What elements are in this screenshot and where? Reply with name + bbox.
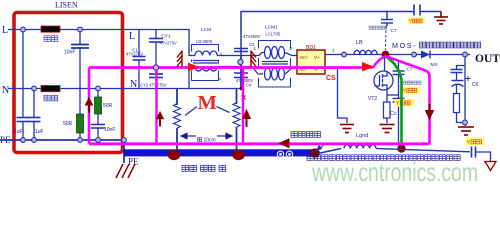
node V+ at BD1: [342, 52, 347, 57]
svg-text:CY1: CY1: [162, 34, 171, 39]
capacitor C3: [234, 49, 248, 52]
wire magenta top run: [89, 66, 373, 69]
capacitor C1 X-cap: [133, 30, 146, 89]
ground (top right): [434, 12, 448, 25]
junction C4/N rail: [240, 87, 243, 90]
current symbols on plane: [277, 151, 292, 157]
svg-text:www.cntronics.com: www.cntronics.com: [311, 157, 478, 185]
ground chassis triangle: [485, 162, 496, 171]
wire LCM1 top to BD1: [285, 53, 297, 56]
svg-text:LCM1: LCM1: [265, 25, 278, 31]
wire to Y cap right: [376, 149, 470, 152]
ground Lgnd (primary): [340, 125, 354, 133]
svg-text:2: 2: [220, 52, 223, 57]
label C7 distributed: [369, 26, 387, 29]
wire magenta right vertical: [428, 74, 431, 144]
svg-text:OUT: OUT: [475, 53, 500, 65]
wire motor leg right: [236, 89, 238, 105]
ground plane bus (参考接地板): [124, 149, 318, 156]
svg-text:BD1: BD1: [306, 45, 316, 51]
capacitor C7 (heatsink distributed): [381, 12, 393, 27]
label Y电容 (mid lower): [395, 99, 415, 107]
node N2: [96, 86, 101, 91]
wire chassis link: [318, 149, 341, 154]
wire PE rail: [0, 139, 124, 141]
svg-text:Y: Y: [403, 89, 407, 95]
arrow current up (C4 drop): [243, 110, 251, 127]
node OUT bottom: [463, 120, 468, 125]
wire LCM1 bottom to BD1: [285, 68, 297, 74]
arrow current tick (at CY1): [177, 51, 182, 67]
label 参考接地板: [182, 165, 226, 171]
wire magenta CY midpoint drop: [155, 68, 157, 144]
transistor VT2 (MOSFET): [374, 55, 393, 90]
svg-text:47V275V: 47V275V: [160, 41, 177, 46]
wire V+ rail: [325, 54, 470, 56]
wire V- drop to ground: [325, 68, 347, 123]
wire LCM to C3 column (L side): [217, 55, 241, 57]
junction mark magenta drop: [242, 96, 246, 100]
ground (source): [380, 125, 395, 133]
caption text: [307, 155, 460, 161]
node plane left (motor leg): [168, 150, 181, 160]
resistor Rs (source): [384, 102, 391, 118]
svg-text:1: 1: [254, 46, 257, 51]
choke LCM1 top winding (loops): [265, 47, 285, 59]
svg-text:LISEN: LISEN: [55, 1, 78, 10]
wire C3 col to LCM1 top: [241, 53, 264, 56]
svg-text:LB: LB: [356, 40, 363, 46]
node PE5: [122, 138, 127, 143]
node CY midpoint: [153, 65, 158, 70]
capacitor 10nF (N measuring leg): [91, 125, 105, 141]
wire magenta C4 midpoint drop: [242, 68, 244, 144]
node PE1: [21, 138, 26, 143]
svg-text:LD-2805: LD-2805: [196, 39, 213, 44]
label Y电容 (bottom right): [466, 138, 485, 146]
node C3/C4 midpoint: [238, 59, 243, 64]
arrow chassis pointer: [317, 143, 328, 151]
wire top Y line: [241, 12, 414, 56]
svg-text:AC+: AC+: [300, 55, 309, 60]
svg-text:PE: PE: [128, 157, 139, 167]
inductor chassis link: [344, 145, 376, 149]
dimension arrow 10cm: [181, 133, 232, 139]
svg-text:LCM: LCM: [201, 27, 211, 33]
arrow current (bright red right, at CS): [362, 62, 374, 72]
choke LCM body outline: [192, 45, 219, 81]
node green to plane: [397, 144, 405, 152]
capacitor Y (bottom right): [472, 147, 491, 162]
capacitor CY1: [149, 30, 163, 68]
svg-text:N: N: [130, 79, 137, 90]
choke LCM1 body outline: [259, 41, 291, 88]
svg-text:4: 4: [219, 77, 222, 82]
resistor motor leg left (zigzag): [174, 104, 181, 129]
choke LCM core: [193, 60, 219, 62]
wire magenta left vertical: [88, 68, 91, 144]
diode VD1: [421, 51, 430, 59]
resistor 50R (N leg): [95, 89, 102, 125]
arrow current tick (at C3): [251, 51, 256, 67]
node before diode: [412, 52, 417, 57]
capacitor 1uF (N leg): [28, 89, 41, 141]
node drain junction (heatsink): [382, 51, 390, 59]
node L1: [21, 27, 26, 32]
label Y电容 (mid upper): [402, 87, 421, 95]
svg-text:L: L: [2, 25, 8, 36]
ground (output): [458, 127, 474, 135]
ground PE (hatched): [116, 164, 135, 178]
node PE3: [78, 138, 83, 143]
svg-text:Y: Y: [467, 140, 471, 146]
choke LCM bottom winding: [195, 67, 217, 72]
inductor LB: [354, 50, 377, 54]
node OUT: [463, 52, 468, 57]
wire LCM to LCM1 (N side): [217, 67, 263, 75]
svg-text:VT2: VT2: [368, 96, 377, 102]
svg-text:47V275V: 47V275V: [126, 52, 143, 57]
wire C3/C4 column: [240, 56, 242, 89]
wire N step to choke: [189, 67, 195, 89]
wire magenta over MOSFET: [373, 56, 430, 77]
label 分布电容 (mid): [404, 81, 422, 84]
wire magenta bottom run: [89, 142, 430, 145]
capacitor C4: [234, 73, 248, 78]
capacitor output small: [451, 70, 463, 81]
svg-text:C4: C4: [246, 83, 252, 88]
svg-text:C6: C6: [472, 82, 479, 88]
capacitor 10nF (L measuring leg): [71, 30, 89, 115]
node N1: [32, 86, 37, 91]
resistor 高阻 N: [41, 86, 60, 92]
svg-text:V+: V+: [314, 55, 320, 60]
svg-text:Cc: Cc: [390, 111, 397, 117]
svg-text:MX: MX: [431, 62, 439, 68]
svg-text:10nF: 10nF: [104, 127, 115, 133]
wire motor connection right: [217, 107, 230, 113]
capacitor 1uF (L leg): [17, 30, 30, 141]
wire L rail: [8, 30, 195, 56]
resistor load: [454, 94, 460, 113]
svg-text:50R: 50R: [63, 121, 73, 127]
node L2: [78, 27, 83, 32]
resistor 高阻 L: [41, 26, 60, 32]
bridge rectifier BD1: [297, 50, 325, 74]
capacitor Cc: [387, 62, 405, 143]
wire green heatsink-to-plane: [386, 57, 402, 147]
capacitor C6 electrolytic: [452, 81, 464, 94]
svg-text:1uF: 1uF: [35, 129, 44, 135]
resistor motor leg right (zigzag): [233, 103, 240, 128]
LISN box: [14, 13, 123, 153]
wire PE drop to ground: [123, 140, 125, 163]
wire motor leg left: [176, 89, 178, 106]
label 机壳接地: [291, 132, 321, 138]
label Y电容 (top): [408, 18, 425, 25]
wire dashed C7 to drain: [385, 26, 388, 50]
svg-text:C7: C7: [391, 28, 397, 34]
svg-text:M: M: [198, 92, 217, 114]
arrow current down (right vertical): [426, 104, 434, 119]
node PE4: [96, 138, 101, 143]
arrow current (bright red right, at LCM): [188, 63, 199, 72]
choke LCM top winding: [195, 51, 217, 56]
svg-text:C7: C7: [407, 67, 413, 72]
svg-text:1: 1: [332, 48, 335, 53]
svg-text:10nF: 10nF: [64, 50, 75, 56]
wire branch top: [457, 66, 466, 70]
svg-text:2: 2: [290, 46, 293, 51]
svg-text:50R: 50R: [103, 103, 113, 109]
arrow current left (bottom run): [278, 138, 290, 148]
svg-text:CS: CS: [326, 75, 336, 82]
capacitor Y (top): [414, 5, 441, 16]
svg-text:L: L: [129, 31, 135, 42]
svg-text:Lgnd: Lgnd: [356, 133, 368, 139]
choke LCM1 bottom winding (loops): [265, 68, 285, 80]
node PE2: [32, 138, 37, 143]
svg-text:1uF: 1uF: [14, 129, 23, 135]
svg-text:1: 1: [188, 48, 191, 53]
svg-text:Y: Y: [396, 101, 400, 107]
resistor 50R (L leg): [77, 114, 84, 133]
arrow current up (CY drop): [157, 112, 164, 127]
wire N rail: [8, 88, 241, 90]
wire motor connection left: [185, 107, 197, 116]
wire OUT column: [464, 55, 466, 123]
node plane end: [310, 148, 320, 157]
arrow current up (LISN leg): [85, 98, 92, 113]
capacitor CY2: [149, 67, 163, 89]
svg-text:MOS-: MOS-: [392, 41, 417, 50]
wire source leg: [386, 90, 388, 102]
node plane right (motor leg): [232, 150, 245, 160]
choke LCM1 core: [262, 61, 288, 63]
svg-text:N: N: [2, 85, 9, 96]
svg-text:LCL705: LCL705: [266, 32, 281, 37]
svg-text:CY2 47V275V: CY2 47V275V: [140, 83, 167, 88]
svg-text:47V250V: 47V250V: [243, 34, 260, 39]
